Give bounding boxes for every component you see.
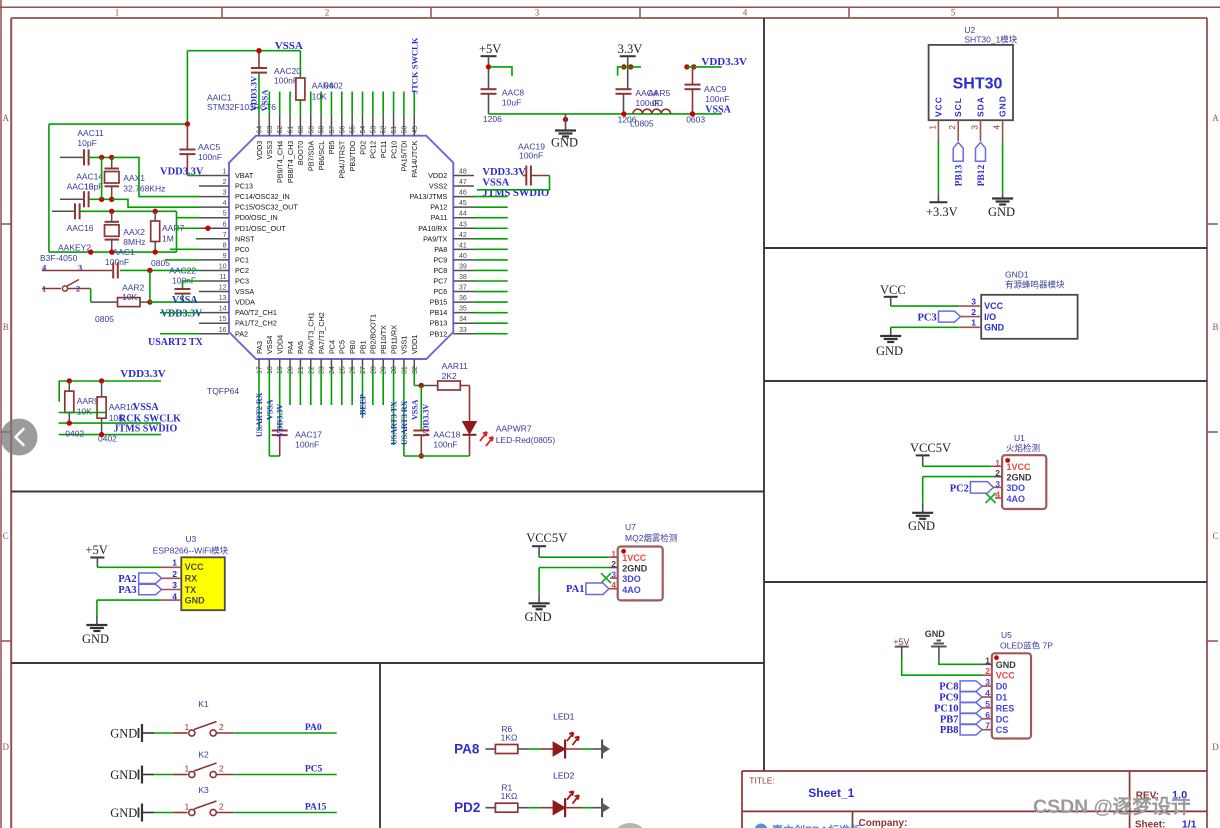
wire: AAC19 to VSSA row [477, 176, 550, 190]
svg-text:VSSA: VSSA [133, 402, 159, 413]
svg-text:2: 2 [219, 764, 224, 774]
wire: VDD3.3V stub [687, 66, 722, 68]
svg-text:PA3: PA3 [255, 341, 264, 354]
panel divider vertical x=764 [763, 18, 765, 771]
resistor AAR6 10K (0402) on BOOT0 [296, 78, 343, 102]
svg-text:VDD1: VDD1 [410, 335, 419, 354]
svg-text:AAR5: AAR5 [648, 88, 670, 98]
svg-text:D0: D0 [996, 682, 1008, 692]
svg-text:VDD3.3V: VDD3.3V [161, 309, 203, 320]
svg-text:LED1: LED1 [553, 712, 575, 722]
svg-text:B: B [1212, 322, 1218, 332]
wire: top pin stubs (green) [259, 51, 414, 115]
svg-text:PC7: PC7 [433, 277, 447, 286]
svg-text:VSSA: VSSA [410, 399, 419, 420]
U7 pin numbers outside [611, 549, 616, 590]
svg-text:PC10: PC10 [934, 703, 959, 714]
wire: 3.3V stubs [618, 67, 641, 76]
node U7 pin1 dot [621, 549, 626, 554]
U7 pin2 stub [609, 567, 618, 569]
U3 body (yellow) [181, 557, 225, 610]
svg-text:PB9/T4_CH4: PB9/T4_CH4 [276, 141, 285, 183]
svg-text:3: 3 [223, 190, 227, 197]
node junction at AAC5 top [185, 121, 190, 126]
svg-text:20: 20 [288, 366, 295, 374]
U7 body (rounded) [618, 547, 663, 601]
svg-text:8MHz: 8MHz [123, 237, 145, 247]
svg-text:PB12: PB12 [977, 165, 987, 187]
svg-text:AAX2: AAX2 [123, 227, 145, 237]
svg-text:0402: 0402 [65, 429, 84, 439]
svg-text:PA1: PA1 [566, 584, 584, 595]
wire: VCC to pin3 [891, 305, 960, 307]
svg-text:PC10: PC10 [389, 141, 398, 159]
wire: VDD3.3V branch col19 with AAC17 [279, 370, 281, 431]
svg-text:PD2: PD2 [358, 141, 367, 155]
svg-text:4: 4 [993, 125, 1002, 130]
switch AAKEY2 contacts [42, 280, 91, 292]
svg-text:AAIC1: AAIC1 [207, 93, 232, 103]
no-connect X on U1 pin4 [986, 493, 996, 503]
ground GND (buzzer) [876, 327, 903, 358]
node AAR10 bottom junction [99, 432, 104, 437]
svg-text:39: 39 [459, 263, 467, 270]
svg-text:PC3: PC3 [918, 313, 937, 324]
svg-text:2GND: 2GND [1007, 473, 1033, 483]
svg-text:49: 49 [412, 126, 419, 134]
wire: outer VSSA loop [49, 124, 188, 252]
port PA1 (pentagon) [566, 583, 609, 595]
ground GND (U1) [908, 503, 935, 533]
svg-text:K1: K1 [198, 699, 209, 709]
svg-text:22: 22 [308, 366, 315, 374]
power +3.3V flag [926, 194, 958, 219]
svg-text:0402: 0402 [98, 434, 117, 444]
svg-text:GND: GND [82, 632, 109, 646]
svg-text:13: 13 [219, 295, 227, 302]
svg-text:28: 28 [370, 366, 377, 374]
svg-text:AAR10: AAR10 [109, 402, 136, 412]
svg-text:VDDA: VDDA [235, 298, 255, 307]
crystal AAX2 8MHz [105, 211, 146, 252]
svg-text:2: 2 [948, 125, 957, 130]
svg-text:VSSA: VSSA [235, 287, 254, 296]
svg-text:AAC8: AAC8 [502, 88, 524, 98]
svg-text:RES: RES [996, 703, 1015, 713]
svg-text:23: 23 [319, 366, 326, 374]
svg-text:2: 2 [971, 307, 976, 317]
rotated net labels below MCU [255, 392, 430, 445]
svg-text:VBAT: VBAT [235, 171, 254, 180]
panel divider vertical x=380 [379, 663, 381, 828]
svg-text:3DO: 3DO [1007, 483, 1026, 493]
U2 SHT30 body [929, 45, 1013, 120]
svg-text:VCC: VCC [880, 283, 906, 297]
svg-text:61: 61 [288, 126, 295, 134]
ground GND flag (U5) [925, 629, 947, 659]
svg-text:PC9: PC9 [433, 255, 447, 264]
crystal AAX1 32.768KHz [105, 157, 166, 199]
node junction AAR2 right [147, 299, 152, 304]
svg-text:64: 64 [257, 126, 264, 134]
svg-text:1: 1 [185, 802, 190, 812]
svg-text:AAC20: AAC20 [274, 66, 301, 76]
svg-text:3DO: 3DO [622, 574, 641, 584]
wire: OSC32_OUT staircase to pin4 [112, 199, 199, 207]
wire: key to AAR2 [90, 289, 92, 303]
svg-text:VDD3.3V: VDD3.3V [160, 167, 204, 178]
svg-text:PA5: PA5 [296, 341, 305, 354]
svg-text:BOOT0: BOOT0 [296, 141, 305, 165]
svg-text:GND: GND [185, 596, 206, 606]
capacitor AAC16 [52, 203, 177, 233]
wire: +5V to U5 pin2 [902, 659, 982, 676]
svg-text:PA11: PA11 [431, 213, 448, 222]
wire: U3 pin4 to GND [97, 600, 160, 616]
U1 pin3 stub [993, 486, 1002, 488]
U4 top pin bank 64-49 (stubs, numbers, names) [255, 115, 419, 183]
port arrow (to GND rail) [602, 740, 610, 759]
switch AAKEY2 pin labels 4 3 / 1 2 [42, 263, 82, 294]
node 3.3V junctions [621, 64, 633, 69]
svg-text:VSSA: VSSA [482, 178, 509, 189]
svg-text:GND: GND [876, 344, 903, 358]
svg-text:44: 44 [459, 211, 467, 218]
wire: resistor to LED [518, 748, 553, 750]
GND1 designator [1005, 270, 1065, 290]
svg-text:26: 26 [350, 366, 357, 374]
svg-text:C: C [3, 531, 9, 541]
svg-text:PC15/OSC32_OUT: PC15/OSC32_OUT [235, 203, 298, 212]
svg-text:PB8: PB8 [940, 725, 959, 736]
node AAC4 bottom junction [621, 111, 626, 116]
svg-text:0402: 0402 [324, 81, 343, 91]
capacitor AAC20 100nF [251, 66, 301, 86]
svg-text:GND: GND [984, 323, 1005, 333]
svg-text:0Ω: 0Ω [652, 98, 663, 108]
svg-text:CS: CS [996, 725, 1009, 735]
svg-text:7: 7 [223, 232, 227, 239]
svg-text:U7: U7 [625, 522, 636, 532]
svg-text:4: 4 [223, 200, 227, 207]
node VDD3.3V junctions [684, 64, 696, 69]
node pullup junctions top [67, 378, 105, 383]
svg-text:PA2: PA2 [118, 574, 136, 585]
svg-text:32.768KHz: 32.768KHz [123, 184, 165, 194]
resistor AAR11 2K2 [421, 361, 469, 390]
svg-text:PB13: PB13 [430, 319, 448, 328]
svg-text:10pF: 10pF [77, 138, 96, 148]
svg-text:K3: K3 [198, 785, 209, 795]
svg-text:10: 10 [219, 263, 227, 270]
power VCC5V flag (U7) [526, 531, 567, 557]
net label 10K / RCK SWCLK overlap [109, 413, 181, 425]
node junctions on AAC11 row [99, 155, 115, 160]
svg-text:K2: K2 [198, 750, 209, 760]
svg-text:PA12: PA12 [430, 203, 447, 212]
port PB12 (pentagon up) [976, 142, 987, 186]
svg-text:GND: GND [908, 519, 935, 533]
U2 pin names VCC SCL SDA GND (rotated) [933, 95, 1007, 117]
svg-text:41: 41 [459, 242, 467, 249]
svg-text:AAC16: AAC16 [67, 223, 94, 233]
svg-text:VSSA: VSSA [705, 105, 731, 116]
svg-text:GND: GND [110, 768, 137, 782]
resistor AAR9 10K [65, 381, 99, 423]
svg-text:8: 8 [223, 242, 227, 249]
svg-text:U3: U3 [185, 534, 196, 544]
svg-text:21: 21 [298, 366, 305, 374]
svg-text:AAPWR7: AAPWR7 [496, 424, 532, 434]
svg-text:PC5: PC5 [338, 340, 347, 354]
svg-text:11: 11 [219, 274, 226, 281]
svg-text:I/O: I/O [984, 312, 996, 322]
wire: VSSA net at MCU top [187, 51, 300, 124]
svg-text:有源蜂鸣器模块: 有源蜂鸣器模块 [1005, 280, 1065, 290]
svg-text:10pF: 10pF [84, 182, 103, 192]
column numbers 1-5 [115, 8, 956, 18]
wire: resistor to LED [518, 807, 553, 809]
svg-text:DC: DC [996, 714, 1009, 724]
svg-text:35: 35 [459, 306, 467, 313]
svg-text:17: 17 [257, 366, 264, 374]
wire: PC1 pin9 [165, 259, 199, 261]
svg-text:C: C [1212, 531, 1218, 541]
svg-text:PC1: PC1 [235, 255, 249, 264]
panel divider horizontal y=491 left [11, 491, 764, 493]
svg-text:PB13: PB13 [955, 165, 965, 187]
svg-text:SDA: SDA [976, 96, 986, 117]
svg-text:46: 46 [459, 190, 467, 197]
svg-text:37: 37 [459, 285, 467, 292]
svg-text:JTCK SWCLK: JTCK SWCLK [410, 37, 420, 94]
resistor AAR2 10K [91, 283, 150, 307]
row letters A-D right (clipped) [1212, 113, 1219, 752]
U1 designator [1006, 433, 1040, 453]
svg-text:B: B [3, 322, 9, 332]
node junctions bottom loop [88, 249, 158, 254]
GND1 pin names [984, 301, 1005, 333]
svg-text:2: 2 [325, 8, 330, 18]
capacitor AAC14 10pF [60, 172, 112, 208]
U3 pin1 stub [160, 566, 181, 568]
U1 pin names [1007, 462, 1033, 504]
svg-text:14: 14 [219, 306, 227, 313]
capacitor AAC18 100nF [413, 430, 460, 457]
svg-text:PA4: PA4 [286, 341, 295, 354]
svg-text:PB7/SDA: PB7/SDA [307, 141, 316, 172]
svg-text:VSSA: VSSA [172, 295, 198, 306]
svg-text:Sheet_1: Sheet_1 [808, 786, 854, 800]
svg-text:VCC5V: VCC5V [526, 531, 567, 545]
svg-text:BEEP: BEEP [359, 394, 368, 415]
svg-text:GND: GND [525, 610, 552, 624]
ground GND (bus) [551, 114, 578, 150]
svg-text:GND: GND [988, 205, 1015, 219]
panel divider horizontal y=582 right [764, 581, 1207, 583]
U4 bottom pin bank 17-32 (stubs, numbers, names) [255, 312, 419, 374]
svg-text:2GND: 2GND [622, 564, 648, 574]
svg-text:12: 12 [219, 285, 227, 292]
svg-text:AAC14: AAC14 [76, 172, 103, 182]
ports PC8 PC9 PC10 PB7 PB8 (pentagons) [934, 681, 992, 736]
svg-text:PA15: PA15 [305, 803, 327, 813]
wire: row16 PA2 [160, 333, 199, 335]
svg-text:10K: 10K [77, 407, 92, 417]
svg-text:2: 2 [223, 179, 227, 186]
svg-text:6: 6 [223, 221, 227, 228]
svg-text:1KΩ: 1KΩ [501, 791, 518, 801]
U5 body (rounded) [992, 653, 1031, 738]
svg-text:5: 5 [223, 211, 227, 218]
U3 pin4 stub [160, 599, 181, 601]
diode LED2 symbol [553, 791, 579, 817]
svg-text:59: 59 [308, 126, 315, 134]
svg-text:5: 5 [951, 8, 956, 18]
svg-text:PC11: PC11 [379, 141, 388, 158]
svg-text:19: 19 [277, 366, 284, 374]
wire: AAR10 bottom rail [59, 434, 161, 436]
capacitor AAC1 on key row [112, 262, 114, 278]
carousel button left [1, 419, 38, 456]
svg-text:USART3 TX: USART3 TX [390, 401, 399, 445]
U3 pin2 pin3 stubs [162, 578, 182, 589]
svg-text:B3F-4050: B3F-4050 [40, 253, 78, 263]
svg-text:U1: U1 [1014, 433, 1025, 443]
port arrow (to GND rail) [602, 798, 610, 817]
wire: LED to port [565, 748, 602, 750]
svg-text:AAC5: AAC5 [198, 142, 220, 152]
svg-text:+5V: +5V [893, 637, 909, 647]
power 3.3V flag [618, 42, 643, 89]
svg-text:D1: D1 [996, 693, 1008, 703]
svg-text:AAC1: AAC1 [113, 247, 135, 257]
svg-text:Company:: Company: [859, 818, 908, 828]
svg-text:VSS3: VSS3 [265, 141, 274, 159]
svg-text:MQ2烟雾检测: MQ2烟雾检测 [625, 533, 677, 543]
wire: bottom pin tails (green) [259, 370, 414, 456]
svg-text:16: 16 [219, 327, 227, 334]
ground GND (U7) [525, 594, 552, 624]
svg-text:100nF: 100nF [295, 440, 319, 450]
svg-text:54: 54 [360, 126, 367, 134]
svg-text:2: 2 [219, 802, 224, 812]
wire: U2 pin4 to GND [1002, 141, 1004, 194]
svg-text:50: 50 [401, 126, 408, 134]
svg-text:+5V: +5V [479, 42, 501, 56]
GND1 pin3 stub [959, 305, 981, 307]
svg-text:53: 53 [370, 126, 377, 134]
svg-text:USART2 TX: USART2 TX [148, 337, 204, 348]
wire: AAC17 ground loop [269, 455, 279, 457]
svg-text:56: 56 [339, 126, 346, 134]
node AAC9 bottom junction [690, 111, 695, 116]
svg-text:AAC18: AAC18 [433, 430, 460, 440]
wire: bottom return [404, 455, 470, 457]
svg-text:L0805: L0805 [630, 119, 654, 129]
svg-text:GND1: GND1 [1005, 270, 1029, 280]
GND1 pin numbers 3 2 1 [971, 297, 976, 328]
svg-text:PD1/OSC_OUT: PD1/OSC_OUT [235, 224, 286, 233]
svg-text:VSS4: VSS4 [265, 336, 274, 354]
svg-text:57: 57 [329, 126, 336, 134]
svg-text:PC3: PC3 [235, 277, 249, 286]
svg-text:PA8: PA8 [434, 245, 447, 254]
svg-text:VCC: VCC [185, 562, 205, 572]
svg-text:A: A [1212, 113, 1219, 123]
svg-text:51: 51 [391, 126, 398, 134]
svg-text:1KΩ: 1KΩ [501, 733, 518, 743]
svg-text:100nF: 100nF [198, 152, 222, 162]
svg-text:VDD4: VDD4 [276, 335, 285, 354]
svg-text:VCC: VCC [984, 301, 1004, 311]
svg-text:PB2/BOOT1: PB2/BOOT1 [369, 314, 378, 354]
svg-text:PC12: PC12 [369, 141, 378, 159]
wire: VDDA row13 to MCU [150, 301, 199, 303]
wire: key row to PC2 pin10 [42, 269, 112, 271]
U4 left pin bank 1-16 (stubs, numbers, names) [199, 169, 298, 339]
svg-text:VCC: VCC [933, 96, 943, 117]
U4 right pin bank 48-33 (stubs, numbers, names) [409, 169, 474, 339]
svg-text:58: 58 [319, 126, 326, 134]
U2 SHT30 designator [964, 25, 1017, 45]
svg-text:31: 31 [401, 366, 408, 374]
svg-text:AAR2: AAR2 [122, 283, 144, 293]
resistor AAR10 10K [97, 381, 136, 435]
svg-text:TQFP64: TQFP64 [207, 386, 239, 396]
svg-text:PC5: PC5 [305, 765, 323, 775]
svg-text:15: 15 [219, 316, 227, 323]
svg-text:GND: GND [925, 629, 946, 639]
svg-text:PB5: PB5 [327, 141, 336, 155]
svg-text:PA0: PA0 [305, 723, 322, 733]
switch K3 [110, 785, 337, 822]
svg-text:10K: 10K [312, 92, 327, 102]
diode AAPWR7 LED-Red(0805) [463, 386, 477, 457]
svg-text:AAC9: AAC9 [704, 84, 726, 94]
svg-text:SCL: SCL [953, 97, 963, 117]
node GND tap [563, 117, 568, 122]
wire: PC0 pin8 [170, 248, 199, 250]
svg-text:LED-Red(0805): LED-Red(0805) [496, 435, 556, 445]
svg-text:VDD2: VDD2 [428, 171, 447, 180]
port PC2 (pentagon) [950, 482, 994, 495]
svg-text:火焰检测: 火焰检测 [1006, 443, 1040, 453]
svg-text:VDD3: VDD3 [255, 141, 264, 160]
svg-text:PA3: PA3 [118, 585, 136, 596]
svg-text:PA6/T3_CH1: PA6/T3_CH1 [307, 312, 316, 354]
wire: GND to U1 pin2 [923, 477, 994, 504]
wire: HSE vertical branch x=176.5 [176, 211, 178, 252]
svg-text:PD2: PD2 [454, 800, 480, 815]
svg-text:1: 1 [185, 764, 190, 774]
port PB13 (pentagon up) [953, 142, 964, 186]
svg-text:1206: 1206 [483, 114, 502, 124]
U5 pin1 stub [982, 663, 992, 665]
svg-text:PA2: PA2 [235, 329, 248, 338]
svg-text:1: 1 [172, 558, 177, 568]
svg-text:VSSA: VSSA [275, 40, 303, 52]
svg-text:52: 52 [381, 126, 388, 134]
U1 body (rounded) [1002, 455, 1046, 509]
svg-text:NRST: NRST [235, 234, 255, 243]
svg-text:RX: RX [185, 573, 198, 583]
svg-text:1: 1 [115, 8, 120, 18]
svg-text:3.3V: 3.3V [618, 42, 643, 56]
node U1 pin1 dot [1005, 458, 1010, 463]
svg-text:1VCC: 1VCC [1007, 462, 1032, 472]
svg-text:VDD3.3V: VDD3.3V [249, 75, 259, 111]
